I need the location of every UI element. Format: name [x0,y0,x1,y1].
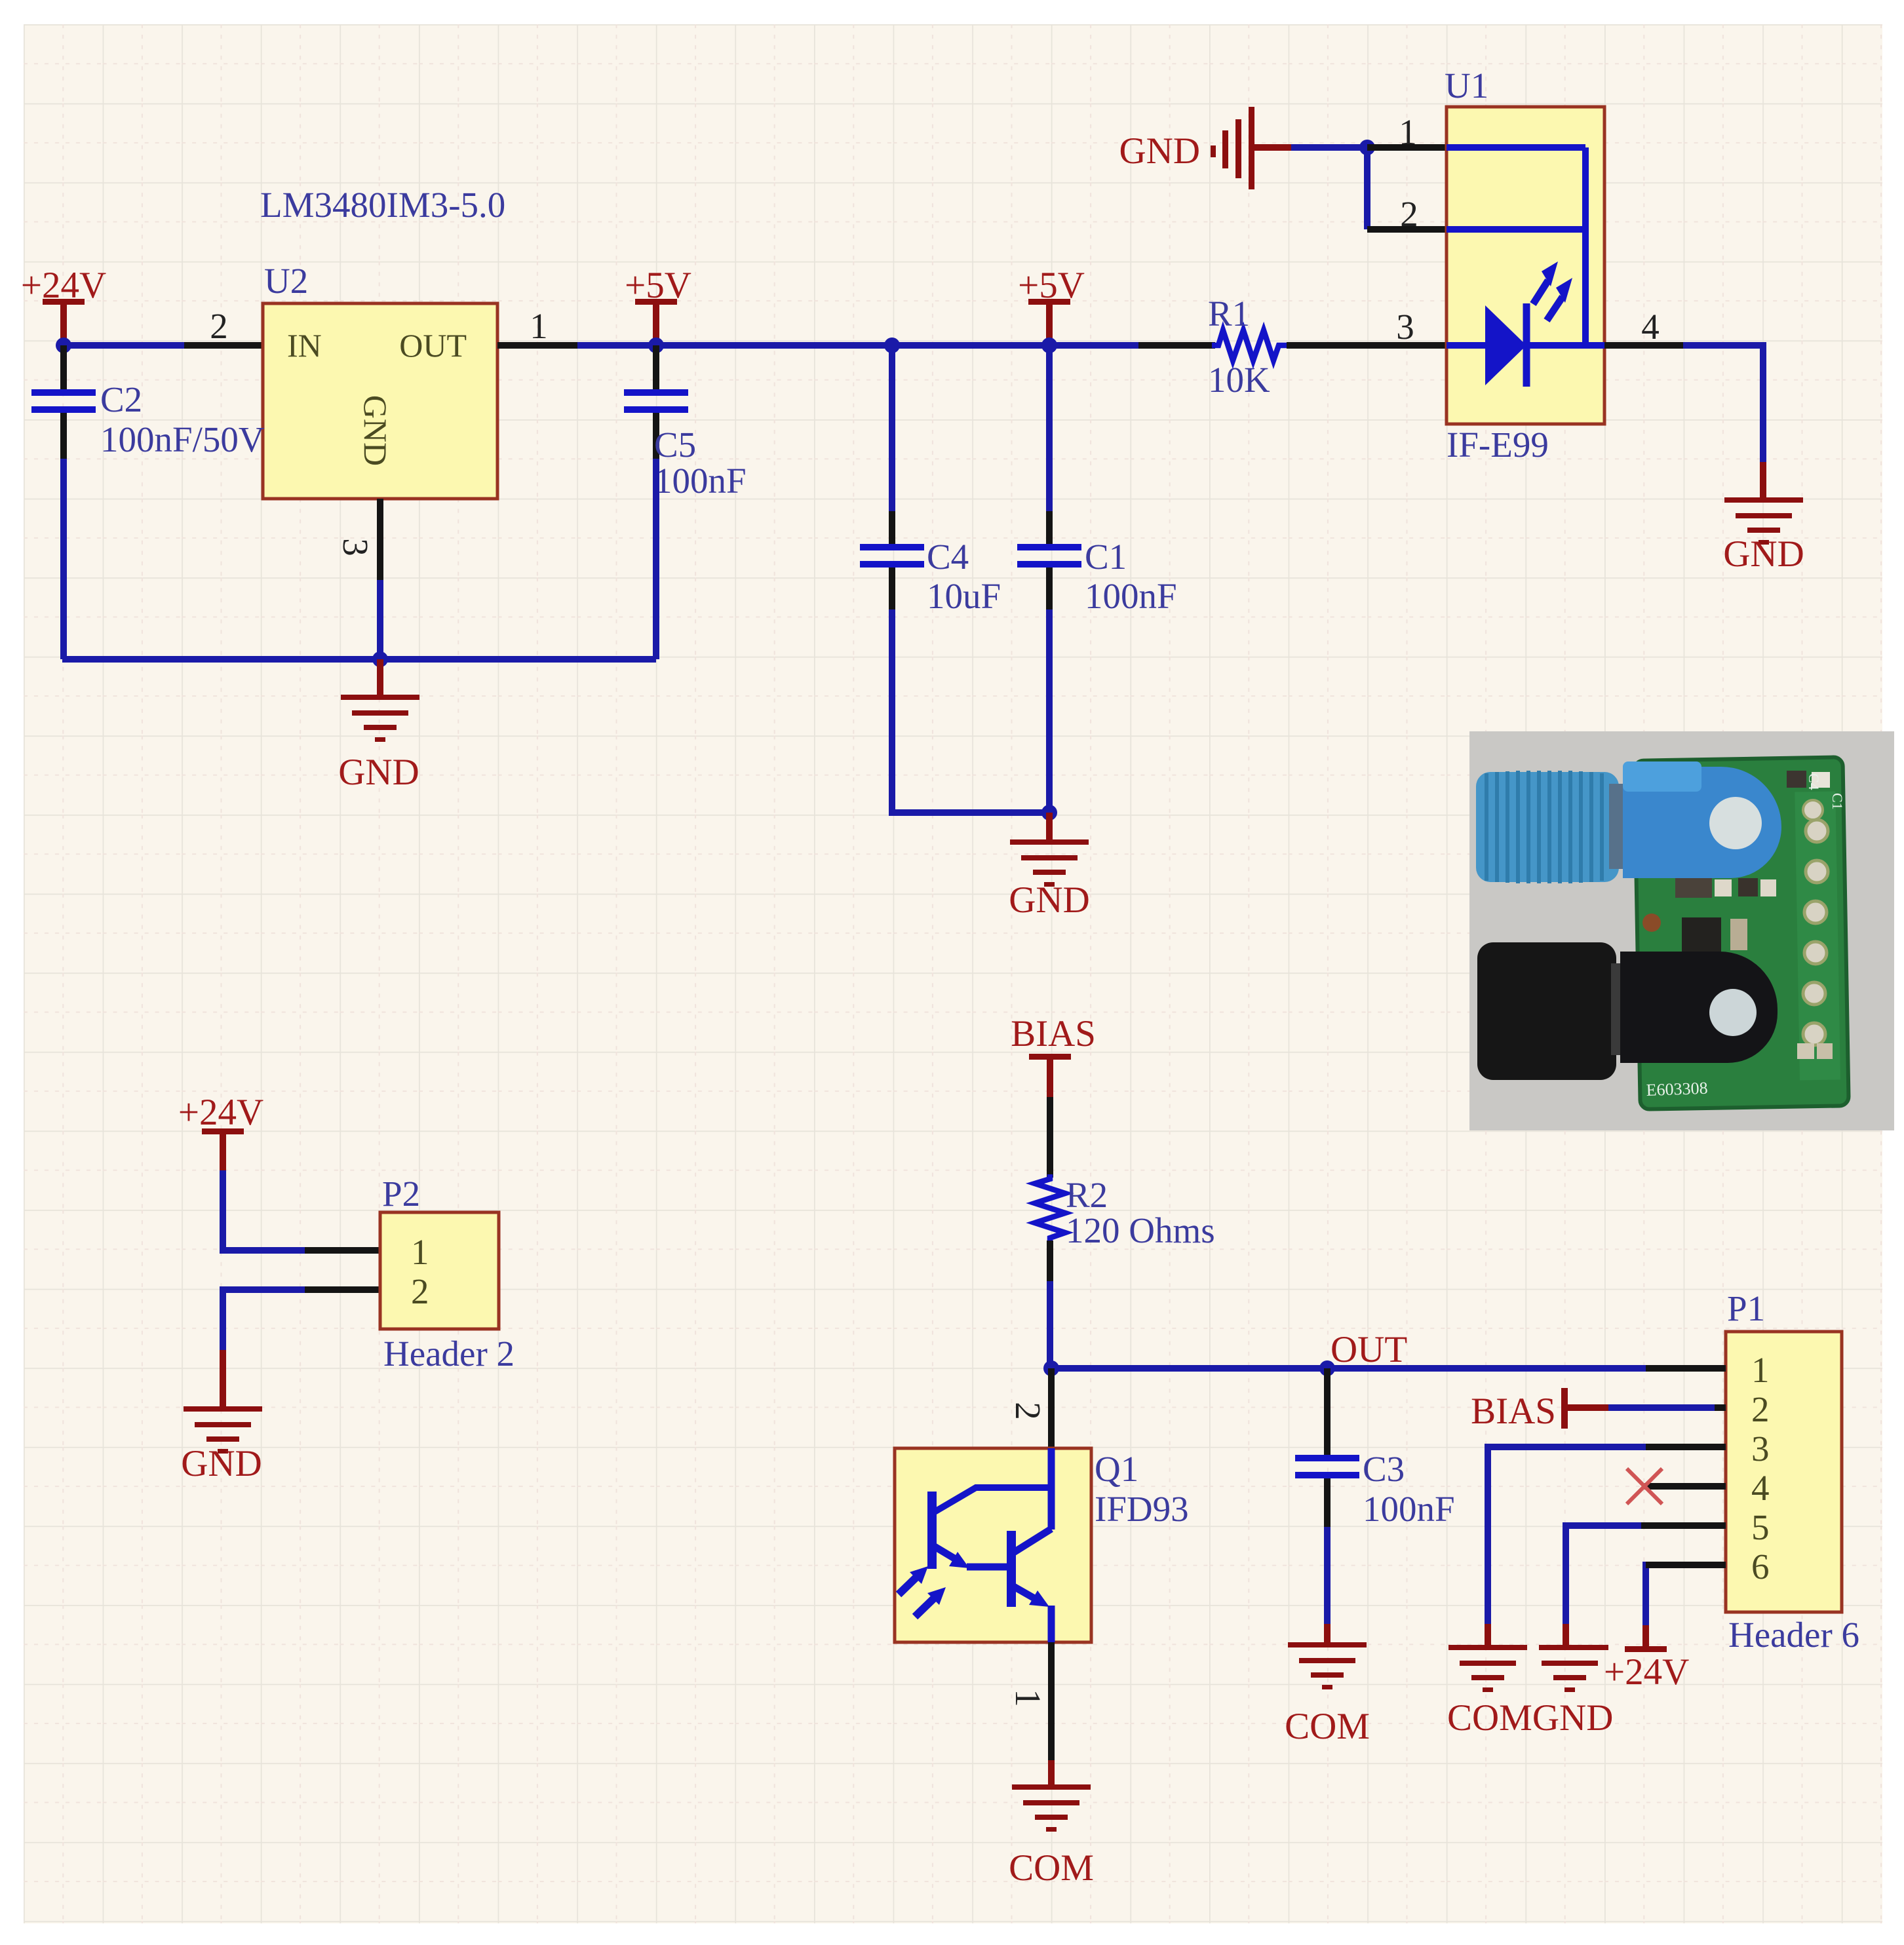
svg-text:3: 3 [1396,307,1414,347]
wire U2.GND down to ground rail [377,580,383,659]
svg-text:3: 3 [336,538,376,556]
svg-text:2: 2 [411,1271,429,1311]
svg-text:U1: U1 [1445,66,1488,106]
resistor R2 [1035,1097,1215,1281]
node C4 junction [884,337,900,353]
svg-text:100nF: 100nF [1085,576,1177,616]
svg-text:100nF: 100nF [1363,1489,1455,1529]
ground COM (P1 pin3) [1448,1624,1527,1692]
wire P1 pin6 to +24V [1646,1565,1647,1627]
svg-text:10uF: 10uF [927,576,1001,616]
photodarlington Q1 body [895,1448,1091,1642]
header pads on PCB [1803,800,1828,1045]
svg-text:1: 1 [1399,112,1417,152]
Q1 internal darlington symbol [899,1448,1051,1642]
wire C2 down to ground rail [62,459,64,659]
svg-text:C4: C4 [1806,773,1822,790]
pin 2 lead of Q1 [1008,1368,1051,1448]
ground COM under Q1 [1009,1760,1094,1889]
black detector body [1620,952,1778,1063]
pin 2 lead of P2 [305,1286,380,1293]
svg-text:BIAS: BIAS [1471,1391,1556,1432]
pin 3 lead of U2 (GND) [336,499,380,580]
svg-text:GND: GND [1723,533,1804,575]
power port BIAS [1011,1013,1096,1098]
wire BIAS to P1 pin2 [1608,1404,1716,1411]
power port +5V (left) [625,265,691,341]
blue emitter body [1623,761,1781,878]
capacitor C2 [31,345,265,459]
svg-text:COMGND: COMGND [1447,1697,1613,1739]
node C1 junction [1041,337,1057,353]
svg-text:C5: C5 [654,425,696,465]
wire +24V to U2.IN [64,342,185,349]
capacitor C5 [624,345,747,501]
node C4/C1 ground junction [1041,805,1057,820]
svg-text:3: 3 [1751,1429,1770,1469]
svg-text:C4: C4 [927,537,969,577]
pin 4 lead of P1 (no connect) [1627,1469,1726,1504]
svg-text:1: 1 [1751,1350,1770,1390]
blue fiber nut [1476,771,1634,883]
svg-text:2: 2 [1008,1402,1048,1420]
power port +24V (bottom left) [178,1092,263,1172]
header P1 body [1726,1332,1842,1612]
green PCB [1634,757,1848,1109]
svg-text:GND: GND [181,1443,262,1484]
regulator U2 body [263,303,497,499]
pin 6 lead of P1 [1646,1562,1726,1568]
wire GND to U1 pins 1/2 [1291,147,1367,229]
power port +24V (at P1 pin6) [1604,1625,1689,1693]
svg-text:OUT: OUT [399,327,467,364]
pin 1 lead of P2 [305,1247,380,1254]
pin 1 lead of U1 [1367,112,1447,152]
node ground rail junction [372,651,388,667]
wire OUT net [1051,1365,1647,1372]
wire P1 pin5 to COMGND [1566,1526,1642,1625]
svg-text:R2: R2 [1066,1175,1108,1215]
svg-text:100nF: 100nF [654,461,747,501]
svg-text:C2: C2 [100,379,142,419]
ground GND (bottom left) [181,1350,262,1484]
svg-text:C1: C1 [1829,793,1846,810]
capacitor C4 [860,345,1001,616]
svg-text:COM: COM [1009,1847,1094,1889]
wire R2 to OUT node [1047,1281,1053,1368]
wire GND to P2 pin2 [223,1290,306,1351]
pin 2 lead of P1 [1715,1404,1726,1411]
node C3 junction [1319,1360,1335,1376]
PCB photo inset [1469,731,1894,1130]
wire ground rail (C2 / U2 / C5) [62,656,656,663]
svg-text:+24V: +24V [1604,1651,1689,1693]
svg-text:2: 2 [1400,194,1418,234]
silkscreen text on PCB [1646,773,1846,1100]
header P2 body [380,1212,499,1329]
wire +24V to P2 pin1 [223,1170,306,1250]
svg-text:Header 6: Header 6 [1728,1615,1859,1655]
pin 1 lead of P1 [1646,1365,1726,1372]
wire P1 pin3 to COMGND [1488,1447,1646,1625]
pin 3 lead of P1 [1646,1444,1726,1450]
svg-text:2: 2 [1751,1389,1770,1429]
power port BIAS (at P1 pin2) [1471,1388,1610,1432]
svg-text:Header 2: Header 2 [383,1334,515,1374]
svg-text:E603308: E603308 [1646,1079,1708,1100]
pin 5 lead of P1 [1641,1522,1726,1529]
svg-text:IF-E99: IF-E99 [1447,425,1549,465]
ground GND under C1 [1009,813,1090,921]
wire C1 down to ground [1046,609,1053,813]
svg-text:C1: C1 [1085,537,1127,577]
svg-text:P2: P2 [382,1174,420,1214]
svg-text:OUT: OUT [1331,1329,1407,1370]
svg-text:LM3480IM3-5.0: LM3480IM3-5.0 [260,185,505,225]
svg-text:C3: C3 [1363,1449,1405,1489]
node U1 pin1 junction [1359,140,1375,155]
U1 internal LED symbol [1447,147,1604,387]
svg-text:4: 4 [1751,1468,1770,1508]
svg-text:IFD93: IFD93 [1095,1489,1189,1529]
ground GND under U2 [338,659,419,793]
ground GND (left of U1, rotated) [1119,107,1292,189]
svg-text:GND: GND [1009,879,1090,921]
wire U1 pin4 to GND [1683,345,1763,463]
svg-text:IN: IN [287,327,322,364]
wire C3 to COM [1324,1527,1331,1625]
node +24V rail junction [56,337,71,353]
ground GND (P1 pin5) [1539,1624,1608,1692]
pin 2 lead of U1 [1367,194,1447,234]
pin 4 lead of U1 [1604,307,1683,347]
svg-text:Q1: Q1 [1095,1449,1138,1489]
resistor R1 [1138,294,1447,400]
ground GND (below U1 pin 4) [1723,462,1804,575]
wire C4 down to C1 ground rail [892,609,1049,813]
black receiver nut [1477,942,1633,1080]
svg-text:GND: GND [1119,130,1201,172]
svg-text:R1: R1 [1208,294,1250,334]
ground COM under C3 [1285,1624,1370,1747]
svg-text:5: 5 [1751,1507,1770,1547]
node OUT junction [1043,1360,1059,1376]
svg-text:100nF/50V: 100nF/50V [100,419,265,459]
svg-text:BIAS: BIAS [1011,1013,1096,1054]
svg-text:COM: COM [1285,1706,1370,1747]
svg-text:120 Ohms: 120 Ohms [1066,1210,1215,1250]
wire +5V rail [577,342,1138,349]
pin 1 lead of U2 (OUT) [497,306,577,346]
svg-text:GND: GND [338,752,419,793]
svg-text:1: 1 [1008,1689,1048,1707]
svg-text:10K: 10K [1208,360,1270,400]
pin 2 lead of U2 [184,306,263,346]
capacitor C3 [1295,1368,1455,1529]
svg-text:+24V: +24V [178,1092,263,1133]
power port +5V (right) [1018,265,1085,341]
svg-text:1: 1 [530,306,548,346]
opto emitter U1 body [1447,107,1604,424]
power port +24V (top left) [21,265,106,341]
svg-text:6: 6 [1751,1547,1770,1587]
svg-text:4: 4 [1641,307,1660,347]
svg-text:1: 1 [411,1232,429,1272]
capacitor C1 [1017,345,1177,616]
svg-text:U2: U2 [264,261,308,301]
svg-text:GND: GND [357,395,394,466]
svg-text:P1: P1 [1727,1288,1765,1328]
wire C5 down to ground rail [653,459,659,659]
node C5 junction [648,337,664,353]
svg-text:2: 2 [210,306,228,346]
SMD parts on PCB [1642,771,1833,1059]
pin 1 lead of Q1 [1008,1642,1051,1762]
